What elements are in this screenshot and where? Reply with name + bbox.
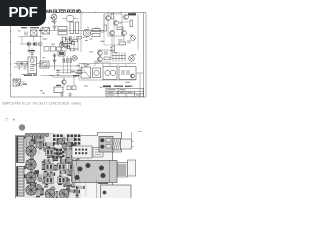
resistor R6 — [92, 29, 100, 32]
wire to bus — [91, 30, 104, 32]
svg-text:GMPCS PBX P.C.B - Thu Jul 17 1: GMPCS PBX P.C.B - Thu Jul 17 13:43:35 20… — [2, 102, 81, 106]
transistor Q11 — [33, 42, 37, 46]
IC U3 — [54, 87, 63, 93]
vertical drops mesh — [84, 64, 86, 67]
wire transformer feed — [14, 48, 42, 67]
pcb power pad P1 — [26, 146, 36, 156]
capacitor C3 — [128, 40, 130, 43]
capacitor C22 — [31, 53, 34, 55]
title block header cells — [103, 85, 131, 87]
pcb connector CN3 body — [99, 137, 113, 153]
pcb connector CN3 hatch tab — [112, 139, 121, 151]
filter network block — [61, 36, 82, 51]
resistor R11 — [117, 27, 123, 30]
value label Q6 — [56, 75, 79, 86]
bridge BR1 — [93, 68, 101, 78]
diode chain D1-D3 — [53, 20, 57, 31]
transistor Q10 — [27, 42, 31, 46]
pcb inductor L1 — [118, 163, 128, 178]
capacitor C23 — [25, 32, 27, 36]
wire collector run — [104, 14, 122, 36]
output jack J3 — [131, 36, 136, 41]
resistor R19 — [77, 71, 82, 74]
pcb cap column — [26, 138, 44, 149]
pcb module RL1 — [72, 161, 117, 183]
value label T1 — [24, 50, 37, 76]
transistor Q8 — [98, 57, 103, 62]
wire q10 run — [20, 43, 42, 51]
wire mesh top rail — [79, 64, 136, 81]
wire under badge — [18, 36, 43, 44]
pcb power pad P5 — [45, 189, 55, 199]
connector J7 circle — [129, 56, 135, 62]
resistor drops below R13 R14 — [18, 65, 27, 69]
capacitor C2 tall box — [75, 22, 79, 34]
wire right rail — [137, 14, 139, 50]
PDF badge — [0, 0, 46, 26]
module U8 fill — [59, 52, 64, 55]
pcb module U11 — [66, 149, 79, 160]
pcb dip footprint U10 — [72, 146, 92, 158]
ground — [27, 51, 31, 54]
svg-text:AIN FILTER PCB 9B: AIN FILTER PCB 9B — [46, 8, 81, 13]
transistor Q7 — [98, 51, 103, 56]
resistor R9 — [111, 14, 114, 20]
pcb power pad P4 — [26, 185, 36, 195]
capacitor bank C4-C9 — [63, 56, 72, 74]
connector J4 hatched — [13, 79, 25, 86]
capacitor C21 — [127, 70, 129, 75]
pcb label LB1 — [98, 183, 108, 184]
resistor R7 — [92, 34, 100, 37]
pcb round cap CL1 — [71, 154, 78, 161]
module U4 box — [81, 67, 91, 78]
pcb power pad P3 — [26, 172, 36, 182]
resistor R13 — [17, 62, 22, 65]
sheet border zone ticks — [10, 20, 12, 86]
resistor R16 — [104, 57, 110, 60]
pcb connector CN2 — [17, 167, 25, 197]
wire mid horizontal run — [38, 66, 80, 76]
wire bundle lower — [56, 70, 86, 76]
capacitor C20 — [122, 70, 124, 75]
wire main horizontal bus — [41, 30, 105, 32]
ground symbols lower — [60, 93, 72, 97]
pcb pad matrix IC1 — [53, 135, 80, 145]
pcb box X1 — [128, 160, 136, 176]
relay K1 box — [42, 28, 50, 35]
pcb dot-pad modules — [45, 149, 77, 184]
module U7 box — [119, 67, 136, 80]
value labels under badge — [21, 27, 42, 31]
wire right mesh — [108, 21, 124, 45]
pcb board outline — [16, 133, 122, 200]
connector J8 circle — [59, 43, 64, 48]
pcb smd parts field — [24, 136, 85, 199]
pcb pad matrix IC2 — [62, 151, 76, 157]
capsule component K2 — [66, 16, 74, 22]
module U5 box — [103, 67, 117, 80]
module U8 box — [58, 51, 65, 56]
component value labels — [16, 17, 137, 93]
transducer MK1 — [83, 29, 91, 38]
resistor R2 — [58, 32, 67, 35]
resistor R20 — [72, 86, 76, 90]
pcb dense zone underlay — [25, 134, 81, 199]
resistor R4 — [50, 47, 55, 52]
resistor R14 — [23, 62, 28, 65]
pcb copper traces — [20, 140, 112, 196]
ground symbol mid — [57, 70, 60, 76]
wire left vertical run — [40, 28, 42, 66]
transformer T1 box — [28, 57, 37, 74]
pcb dip footprint U12 — [93, 148, 103, 158]
transistor Q1 — [106, 16, 111, 21]
connector J2 circle — [51, 14, 57, 20]
net label top right — [128, 13, 136, 15]
title block text dashes — [108, 89, 142, 95]
pcb module M1 — [101, 185, 132, 199]
resistor R5 — [57, 47, 62, 51]
capacitor C1 tall box — [70, 22, 74, 34]
pcb infill parts — [25, 133, 76, 198]
value label J4 — [23, 84, 28, 85]
resistor R18 — [112, 46, 115, 52]
transistor Q2 — [114, 21, 119, 26]
transistor Q9 — [131, 74, 135, 78]
module U2 — [40, 61, 49, 68]
resistor R12 — [119, 42, 126, 45]
wire top feed — [53, 13, 55, 15]
pcb edge trace — [97, 132, 142, 199]
transistor Q5 — [122, 31, 127, 36]
resistor R8 — [104, 25, 107, 31]
connector J6 circle — [72, 56, 77, 61]
capacitor C12 — [105, 51, 107, 55]
pcb power pad P2 — [26, 159, 36, 169]
capacitor C14 — [95, 61, 97, 64]
sheet border top ticks — [56, 12, 134, 14]
module U9 box — [31, 30, 38, 36]
wire u7 out — [136, 73, 144, 97]
transistor Q3 — [124, 15, 129, 20]
transformer T1 core circle — [30, 59, 35, 71]
capacitor C13 — [85, 65, 87, 68]
pcb dip U10 pads — [75, 149, 87, 155]
resistor R15 — [67, 86, 71, 90]
resistor R3 — [44, 47, 49, 52]
wire lower center — [52, 77, 76, 87]
resistor R1 — [58, 27, 67, 30]
wire mesh top right — [104, 14, 130, 45]
title block — [106, 88, 144, 97]
pcb plug CN4 — [121, 139, 134, 149]
pcb pad matrix IC3 — [52, 149, 62, 159]
transistor Q4 — [110, 31, 115, 36]
list bullet dot — [19, 124, 25, 130]
wire vertical rail — [80, 13, 82, 52]
schematic sheet border — [11, 13, 147, 98]
resistor R10 — [130, 20, 133, 27]
transistor Q6 — [62, 80, 66, 84]
pcb connector CN1 — [17, 137, 25, 163]
capacitor row C15-C19 — [112, 52, 126, 62]
diode pair D4 D5 — [53, 53, 56, 70]
corner crop mark — [6, 119, 9, 122]
wire q-pair — [97, 50, 111, 62]
pcb power pad P6 — [59, 189, 69, 199]
